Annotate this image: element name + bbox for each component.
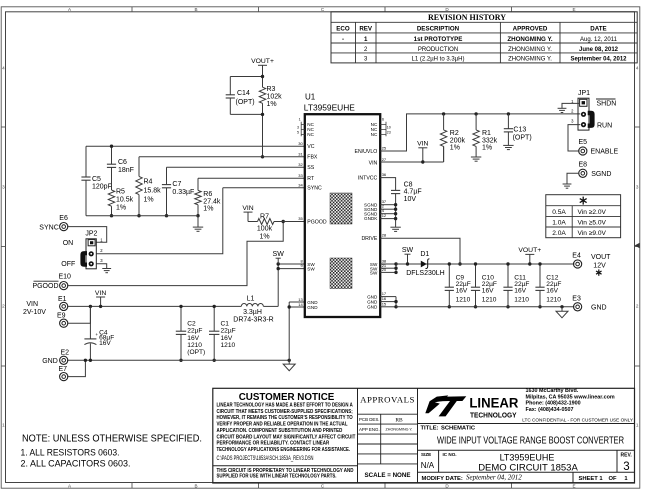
svg-text:15.8k: 15.8k <box>144 188 162 195</box>
svg-text:L1 (2.2µH to 3.3µH): L1 (2.2µH to 3.3µH) <box>412 57 465 63</box>
svg-text:1.0A: 1.0A <box>552 219 566 226</box>
svg-text:DRIVE: DRIVE <box>361 236 377 242</box>
svg-text:CIRCUIT THAT MEETS CUSTOMER-SU: CIRCUIT THAT MEETS CUSTOMER-SUPPLIED SPE… <box>217 409 353 415</box>
svg-text:C:\PADS PROJECTS\1853A\SCH.185: C:\PADS PROJECTS\1853A\SCH.1853A_REV3.DS… <box>217 455 314 462</box>
svg-text:1210: 1210 <box>546 296 561 303</box>
svg-text:35: 35 <box>298 216 303 221</box>
svg-text:3: 3 <box>623 461 629 473</box>
svg-text:DFLS230LH: DFLS230LH <box>406 270 445 277</box>
svg-text:C14: C14 <box>237 90 250 97</box>
svg-text:Milpitas, CA 95035 www.linear: Milpitas, CA 95035 www.linear.com <box>526 394 615 400</box>
svg-text:SIZE: SIZE <box>421 452 431 457</box>
svg-text:L1: L1 <box>247 296 255 303</box>
svg-text:NC: NC <box>307 132 314 137</box>
svg-text:SS: SS <box>307 165 314 171</box>
svg-text:VOUT: VOUT <box>591 254 611 261</box>
svg-text:E10: E10 <box>59 274 72 281</box>
svg-text:September 04, 2012: September 04, 2012 <box>466 474 522 482</box>
svg-text:332k: 332k <box>482 137 498 144</box>
svg-text:1%: 1% <box>203 206 213 213</box>
svg-text:TECHNOLOGY APPLICATIONS ENGINE: TECHNOLOGY APPLICATIONS ENGINEERING FOR … <box>217 447 351 453</box>
svg-text:28: 28 <box>382 233 387 238</box>
svg-text:Vin ≥2.0V: Vin ≥2.0V <box>578 209 607 216</box>
svg-text:SW: SW <box>402 247 414 254</box>
svg-text:3: 3 <box>297 125 299 129</box>
svg-text:36: 36 <box>382 172 387 177</box>
svg-text:RB: RB <box>395 417 403 423</box>
svg-text:3.3µH: 3.3µH <box>243 309 262 316</box>
svg-text:1%: 1% <box>482 144 492 151</box>
svg-text:Phone: (408)432-1900: Phone: (408)432-1900 <box>526 401 581 407</box>
svg-text:June 08, 2012: June 08, 2012 <box>579 47 619 53</box>
svg-text:RUN: RUN <box>597 122 612 129</box>
svg-text:SHEET: SHEET <box>579 476 599 482</box>
svg-text:1%: 1% <box>259 233 269 240</box>
svg-text:22µF: 22µF <box>187 328 202 335</box>
svg-text:120pF: 120pF <box>92 184 112 191</box>
svg-text:C2: C2 <box>187 320 196 327</box>
svg-text:(OPT): (OPT) <box>187 349 205 356</box>
svg-text:INTVCC: INTVCC <box>358 175 378 181</box>
svg-text:Vin ≥5.0V: Vin ≥5.0V <box>578 219 607 226</box>
svg-text:2: 2 <box>2 304 5 309</box>
svg-text:GND: GND <box>591 304 607 311</box>
svg-text:1210: 1210 <box>514 296 529 303</box>
svg-text:1st PROTOTYPE: 1st PROTOTYPE <box>414 36 463 43</box>
svg-text:SYNC: SYNC <box>39 225 58 232</box>
svg-text:C7: C7 <box>172 181 181 188</box>
svg-text:3: 3 <box>636 185 639 190</box>
svg-text:JP1: JP1 <box>578 90 590 97</box>
svg-text:2.0A: 2.0A <box>552 230 566 237</box>
svg-text:Fax: (408)434-0507: Fax: (408)434-0507 <box>526 407 574 413</box>
svg-text:1%: 1% <box>267 101 277 108</box>
svg-text:September 04, 2012: September 04, 2012 <box>570 57 627 63</box>
svg-text:16V: 16V <box>546 287 558 294</box>
svg-text:VC: VC <box>307 144 314 150</box>
svg-text:16V: 16V <box>221 335 233 342</box>
svg-text:SCHEMATIC: SCHEMATIC <box>441 426 476 432</box>
svg-text:5: 5 <box>297 130 299 134</box>
svg-text:1210: 1210 <box>482 296 497 303</box>
svg-text:PGOOD: PGOOD <box>32 283 58 290</box>
svg-text:LT3959EUHE: LT3959EUHE <box>304 103 355 113</box>
svg-text:23: 23 <box>387 130 391 134</box>
svg-text:SW: SW <box>307 266 315 271</box>
svg-text:LT3959EUHE: LT3959EUHE <box>500 452 555 462</box>
svg-text:0.33µF: 0.33µF <box>172 189 194 196</box>
svg-text:VIN: VIN <box>242 205 253 212</box>
svg-text:E9: E9 <box>57 313 66 320</box>
svg-text:ZHONGMING Y.: ZHONGMING Y. <box>507 36 553 43</box>
svg-text:DR74-3R3-R: DR74-3R3-R <box>233 317 273 324</box>
svg-text:GND: GND <box>307 305 318 310</box>
svg-text:C6: C6 <box>118 159 127 166</box>
svg-text:NC: NC <box>371 132 378 137</box>
svg-text:-: - <box>342 36 344 43</box>
svg-text:10: 10 <box>387 125 391 129</box>
svg-text:4: 4 <box>2 66 5 71</box>
svg-text:R6: R6 <box>203 191 212 198</box>
svg-text:CIRCUIT BOARD LAYOUT MAY SIGNI: CIRCUIT BOARD LAYOUT MAY SIGNIFICANTLY A… <box>217 434 356 440</box>
svg-text:GND: GND <box>367 305 378 310</box>
svg-text:27: 27 <box>382 157 387 162</box>
svg-text:12V: 12V <box>593 262 606 269</box>
svg-text:C1: C1 <box>221 320 230 327</box>
svg-text:PCB DES.: PCB DES. <box>359 417 380 422</box>
svg-text:GND: GND <box>42 358 58 365</box>
svg-text:6: 6 <box>382 118 384 122</box>
svg-text:VOUT+: VOUT+ <box>251 58 274 65</box>
svg-text:1. ALL RESISTORS 0603.: 1. ALL RESISTORS 0603. <box>21 448 120 459</box>
svg-text:0.5A: 0.5A <box>552 209 566 216</box>
svg-text:E: E <box>572 7 575 12</box>
svg-text:2V-10V: 2V-10V <box>23 309 46 316</box>
svg-text:4: 4 <box>636 66 639 71</box>
svg-text:2: 2 <box>636 304 639 309</box>
svg-text:APP ENG.: APP ENG. <box>359 427 380 432</box>
svg-text:C13: C13 <box>513 127 526 134</box>
svg-text:Vin ≥9.0V: Vin ≥9.0V <box>578 230 607 237</box>
svg-text:R3: R3 <box>267 86 276 93</box>
svg-text:R2: R2 <box>450 130 459 137</box>
svg-text:SCALE = NONE: SCALE = NONE <box>365 472 411 479</box>
svg-text:32: 32 <box>298 162 303 167</box>
svg-text:16V: 16V <box>187 335 199 342</box>
svg-text:APPROVALS: APPROVALS <box>360 395 415 405</box>
svg-text:2. ALL CAPACITORS 0603.: 2. ALL CAPACITORS 0603. <box>21 459 131 470</box>
svg-text:E3: E3 <box>572 296 581 303</box>
svg-text:LINEAR: LINEAR <box>469 396 518 411</box>
svg-text:1630 McCarthy Blvd.: 1630 McCarthy Blvd. <box>526 388 579 394</box>
svg-text:ECO: ECO <box>336 26 350 33</box>
svg-text:10V: 10V <box>404 196 417 203</box>
svg-text:R4: R4 <box>144 179 153 186</box>
svg-text:GNDK: GNDK <box>364 216 378 221</box>
svg-text:1210: 1210 <box>221 342 236 349</box>
svg-text:B: B <box>194 7 197 12</box>
svg-text:1: 1 <box>299 118 301 122</box>
svg-text:NOTE: UNLESS OTHERWISE SPECIFI: NOTE: UNLESS OTHERWISE SPECIFIED. <box>22 434 202 445</box>
svg-text:C8: C8 <box>404 181 413 188</box>
svg-text:102k: 102k <box>267 94 283 101</box>
svg-text:1210: 1210 <box>456 296 471 303</box>
svg-text:22µF: 22µF <box>221 328 236 335</box>
svg-text:1210: 1210 <box>187 342 202 349</box>
svg-text:DESCRIPTION: DESCRIPTION <box>417 26 460 33</box>
svg-text:1%: 1% <box>116 205 126 212</box>
svg-text:SUPPLIED FOR USE WITH LINEAR T: SUPPLIED FOR USE WITH LINEAR TECHNOLOGY … <box>217 474 337 480</box>
svg-text:E5: E5 <box>579 139 588 146</box>
svg-text:1: 1 <box>364 36 368 43</box>
svg-text:4.7µF: 4.7µF <box>404 189 422 196</box>
svg-text:ENABLE: ENABLE <box>591 149 619 156</box>
svg-text:LINEAR TECHNOLOGY HAS MADE A B: LINEAR TECHNOLOGY HAS MADE A BEST EFFORT… <box>217 403 353 409</box>
svg-text:FBX: FBX <box>307 154 318 160</box>
svg-text:16V: 16V <box>99 340 111 347</box>
svg-text:VIN: VIN <box>369 160 378 166</box>
svg-text:+: + <box>95 332 98 337</box>
svg-text:25: 25 <box>382 146 387 151</box>
svg-text:PRODUCTION: PRODUCTION <box>418 47 458 53</box>
svg-text:VERIFY PROPER AND RELIABLE OPE: VERIFY PROPER AND RELIABLE OPERATION IN … <box>217 422 349 428</box>
svg-text:1%: 1% <box>144 197 154 204</box>
svg-text:D1: D1 <box>420 251 429 258</box>
svg-text:16V: 16V <box>482 287 494 294</box>
svg-text:REV.: REV. <box>621 452 633 458</box>
svg-text:ZHONGMING Y.: ZHONGMING Y. <box>386 428 413 432</box>
svg-text:R1: R1 <box>482 130 491 137</box>
svg-text:LTC CONFIDENTIAL - FOR CUSTOME: LTC CONFIDENTIAL - FOR CUSTOMER USE ONLY <box>522 418 634 423</box>
svg-text:APPROVED: APPROVED <box>513 26 548 33</box>
svg-text:30: 30 <box>298 141 303 146</box>
svg-text:E7: E7 <box>59 366 68 373</box>
svg-text:SW: SW <box>273 251 285 258</box>
svg-text:31: 31 <box>298 151 303 156</box>
svg-text:REV: REV <box>359 26 373 33</box>
svg-text:SW: SW <box>370 271 378 276</box>
svg-text:E1: E1 <box>58 296 67 303</box>
svg-text:E2: E2 <box>61 349 70 356</box>
svg-text:VIN: VIN <box>26 301 38 308</box>
svg-text:E4: E4 <box>572 253 581 260</box>
svg-text:ON: ON <box>63 240 73 247</box>
svg-text:1: 1 <box>2 423 5 428</box>
svg-text:100k: 100k <box>257 226 273 233</box>
svg-text:WIDE INPUT VOLTAGE RANGE BOOST: WIDE INPUT VOLTAGE RANGE BOOST CONVERTER <box>437 436 624 447</box>
svg-text:1%: 1% <box>450 144 460 151</box>
svg-text:18nF: 18nF <box>118 167 134 174</box>
svg-text:VOUT+: VOUT+ <box>518 247 541 254</box>
svg-text:1: 1 <box>636 423 639 428</box>
svg-text:E6: E6 <box>59 215 68 222</box>
svg-text:RT: RT <box>307 176 315 182</box>
svg-text:EN/UVLO: EN/UVLO <box>355 149 378 155</box>
svg-text:SHDN: SHDN <box>597 100 617 107</box>
svg-text:JP2: JP2 <box>85 231 97 238</box>
svg-text:TECHNOLOGY: TECHNOLOGY <box>470 410 517 419</box>
svg-text:33: 33 <box>298 173 303 178</box>
svg-text:E8: E8 <box>579 162 588 169</box>
svg-text:15: 15 <box>382 301 387 306</box>
svg-text:16V: 16V <box>514 287 526 294</box>
svg-text:Aug. 12, 2011: Aug. 12, 2011 <box>580 37 618 43</box>
svg-text:C5: C5 <box>92 176 101 183</box>
svg-text:HOWEVER, IT REMAINS THE CUSTOM: HOWEVER, IT REMAINS THE CUSTOMER’S RESPO… <box>217 415 353 421</box>
svg-text:TITLE:: TITLE: <box>421 426 439 432</box>
svg-text:CUSTOMER NOTICE: CUSTOMER NOTICE <box>239 392 335 403</box>
svg-text:OFF: OFF <box>61 261 75 268</box>
svg-text:N/A: N/A <box>421 461 435 470</box>
svg-text:R7: R7 <box>260 213 269 220</box>
svg-text:SGND: SGND <box>591 171 611 178</box>
svg-text:34: 34 <box>298 182 303 187</box>
svg-text:E: E <box>572 484 575 489</box>
svg-text:3: 3 <box>2 185 5 190</box>
svg-text:IC NO.: IC NO. <box>443 452 457 457</box>
svg-text:PERFORMANCE OR RELIABILITY. C: PERFORMANCE OR RELIABILITY. CONTACT LINE… <box>217 441 330 447</box>
svg-text:14: 14 <box>298 302 303 307</box>
svg-text:10.5k: 10.5k <box>116 197 134 204</box>
svg-text:R5: R5 <box>116 189 125 196</box>
svg-text:(OPT): (OPT) <box>236 99 255 106</box>
svg-text:200k: 200k <box>450 137 466 144</box>
svg-text:U1: U1 <box>305 93 316 102</box>
svg-text:APPLICATION. COMPONENT SUBSTI: APPLICATION. COMPONENT SUBSTITUTION AND … <box>217 428 343 434</box>
svg-text:(OPT): (OPT) <box>513 134 532 141</box>
svg-text:16V: 16V <box>456 287 468 294</box>
svg-text:REVISION HISTORY: REVISION HISTORY <box>428 13 506 22</box>
svg-text:MODIFY DATE:: MODIFY DATE: <box>422 476 463 482</box>
svg-text:DATE: DATE <box>590 26 606 33</box>
svg-text:SYNC: SYNC <box>307 186 322 192</box>
svg-text:VIN: VIN <box>95 290 106 297</box>
svg-text:VIN: VIN <box>417 141 428 148</box>
svg-text:PGOOD: PGOOD <box>307 219 327 225</box>
svg-text:27.4k: 27.4k <box>203 199 221 206</box>
svg-text:ZHONGMING Y.: ZHONGMING Y. <box>508 57 552 63</box>
svg-text:OF: OF <box>608 476 617 482</box>
svg-text:B: B <box>194 484 197 489</box>
svg-text:ZHONGMING Y.: ZHONGMING Y. <box>508 47 552 53</box>
